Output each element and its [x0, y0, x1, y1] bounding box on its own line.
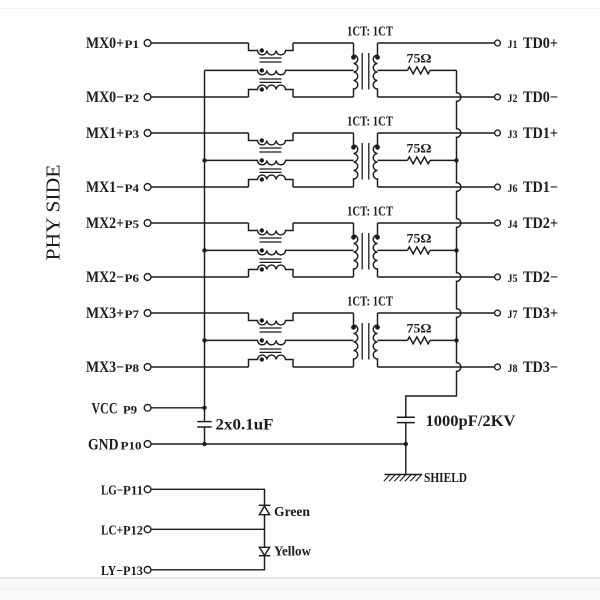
svg-text:MX3+: MX3+ — [86, 305, 124, 322]
svg-text:MX1+: MX1+ — [86, 125, 124, 142]
pin J8 terminal circle — [495, 364, 501, 370]
choke L1 middle winding polarity dot — [260, 68, 264, 72]
wire centre-tap bus to choke L3 middle winding to transformer T3 primary CT — [205, 250, 354, 254]
junction dot on primary CT bus — [202, 338, 206, 342]
svg-text:MX2−: MX2− — [86, 269, 124, 286]
common-mode choke L4 top winding — [249, 313, 294, 325]
resistor R3 75 ohm zigzag — [408, 247, 431, 254]
transformer T1 primary winding — [354, 43, 358, 97]
svg-text:J4: J4 — [508, 219, 518, 231]
transformer T2 core — [361, 143, 363, 180]
wire transformer T2 secondary top to J3 — [378, 132, 495, 134]
chassis ground symbol SHIELD — [385, 474, 422, 476]
svg-text:P7: P7 — [125, 309, 140, 321]
LED D1 Green triangle — [259, 506, 269, 515]
choke L1 core lines (lower pair) — [260, 78, 282, 80]
transformer T2 primary winding — [354, 133, 358, 187]
transformer T1 secondary polarity dot — [375, 55, 380, 60]
wire choke L1 to transformer T1 primary top — [293, 42, 354, 44]
svg-text:P10: P10 — [121, 441, 142, 453]
common-mode choke L4 bottom winding — [249, 355, 294, 367]
faint bottom table border line — [0, 579, 600, 600]
LED D2 Yellow triangle — [259, 547, 269, 555]
pin P12 terminal circle — [144, 526, 151, 533]
wire secondary shield bus (vertical, with hops) — [406, 70, 461, 417]
transformer T4 secondary polarity dot — [375, 325, 380, 330]
svg-text:P1: P1 — [125, 39, 140, 51]
choke L2 top winding polarity dot — [260, 138, 264, 142]
common-mode choke L1 top winding — [249, 43, 294, 55]
wire resistor R3 to shield bus — [430, 249, 457, 251]
transformer T4 primary polarity dot — [351, 325, 356, 330]
wire transformer T2 secondary CT to resistor R2 — [378, 159, 408, 161]
junction dot resistor R2 / shield bus — [454, 158, 458, 162]
svg-text:SHIELD: SHIELD — [424, 470, 467, 485]
wire choke L1 to transformer T1 primary bottom — [293, 96, 354, 98]
svg-text:J8: J8 — [508, 363, 518, 375]
svg-text:TD3−: TD3− — [523, 359, 558, 376]
svg-text:2x0.1uF: 2x0.1uF — [216, 417, 274, 434]
svg-text:P13: P13 — [123, 563, 143, 578]
pin P3 terminal circle — [144, 130, 151, 137]
svg-text:1CT: 1CT: 1CT: 1CT — [347, 295, 393, 310]
wire choke L2 to transformer T2 primary bottom — [293, 186, 354, 188]
pin J3 terminal circle — [495, 130, 501, 136]
common-mode choke L3 bottom winding — [249, 265, 294, 277]
wire P2 to choke L1 bottom — [151, 96, 248, 98]
resistor R4 75 ohm zigzag — [408, 337, 431, 344]
choke L4 core lines (lower pair) — [260, 348, 282, 350]
transformer T4 secondary winding — [373, 313, 377, 367]
wire P8 to choke L4 bottom — [151, 366, 248, 368]
pin P5 terminal circle — [144, 220, 151, 227]
transformer T4 core — [361, 323, 363, 360]
wire centre-tap bus to choke L2 middle winding to transformer T2 primary CT — [205, 160, 354, 164]
wire LC+ P12 common anode — [151, 528, 264, 530]
pin P6 terminal circle — [144, 274, 151, 281]
wire P1 to choke L1 top — [151, 42, 248, 44]
choke L2 bottom winding polarity dot — [260, 177, 264, 181]
transformer T2 secondary winding — [373, 133, 377, 187]
wire choke L3 to transformer T3 primary bottom — [293, 276, 354, 278]
junction dot GND / C1 — [202, 442, 206, 446]
transformer T1 primary polarity dot — [351, 55, 356, 60]
wire transformer T4 secondary bottom to J8 — [378, 366, 495, 368]
wire transformer T4 secondary top to J7 — [378, 312, 495, 314]
wire resistor R2 to shield bus — [430, 159, 457, 161]
svg-text:GND: GND — [88, 437, 119, 454]
pin P13 terminal circle — [144, 566, 151, 573]
LED D2 Yellow cathode bar — [259, 555, 271, 557]
choke L1 bottom winding polarity dot — [260, 87, 264, 91]
junction dot on primary CT bus — [202, 248, 206, 252]
wire LED D2 cathode to LY- P13 — [151, 556, 264, 570]
junction dot on primary CT bus — [202, 158, 206, 162]
choke L2 middle winding polarity dot — [260, 158, 264, 162]
svg-text:LY−: LY− — [101, 563, 123, 578]
common-mode choke L2 top winding — [249, 133, 294, 145]
svg-text:J3: J3 — [508, 129, 518, 141]
svg-text:J5: J5 — [508, 273, 518, 285]
svg-text:TD1−: TD1− — [523, 179, 558, 196]
choke L4 core lines — [260, 327, 282, 329]
wire choke L3 to transformer T3 primary top — [293, 222, 354, 224]
svg-text:75Ω: 75Ω — [407, 141, 432, 156]
common-mode choke L3 top winding — [249, 223, 294, 235]
svg-text:1CT: 1CT: 1CT: 1CT — [347, 205, 393, 220]
wire transformer T1 secondary top to J1 — [378, 42, 495, 44]
wire choke L2 to transformer T2 primary top — [293, 132, 354, 134]
choke L2 core lines (lower pair) — [260, 168, 282, 170]
pin J6 terminal circle — [495, 184, 501, 190]
wire choke L4 to transformer T4 primary top — [293, 312, 354, 314]
wire P7 to choke L4 top — [151, 312, 248, 314]
svg-text:J1: J1 — [508, 39, 518, 51]
wire P5 to choke L3 top — [151, 222, 248, 224]
choke L3 middle winding polarity dot — [260, 248, 264, 252]
pin P4 terminal circle — [144, 184, 151, 191]
pin P7 terminal circle — [144, 310, 151, 317]
pin P1 terminal circle — [144, 40, 151, 47]
transformer T2 secondary polarity dot — [375, 145, 380, 150]
label PHY SIDE (vertical) — [43, 165, 65, 261]
junction dot GND wire / shield branch — [404, 442, 408, 446]
choke L3 core lines — [260, 237, 282, 239]
transformer T1 secondary winding — [373, 43, 377, 97]
svg-text:P12: P12 — [123, 522, 143, 537]
svg-text:MX0−: MX0− — [86, 89, 124, 106]
svg-text:J2: J2 — [508, 93, 518, 105]
svg-text:LC+: LC+ — [101, 522, 123, 537]
wire transformer T3 secondary bottom to J5 — [378, 276, 495, 278]
svg-text:75Ω: 75Ω — [407, 51, 432, 66]
wire resistor R4 to shield bus — [430, 339, 457, 341]
choke L3 bottom winding polarity dot — [260, 267, 264, 271]
wire transformer T1 secondary CT to resistor R1 — [378, 69, 408, 71]
wire P6 to choke L3 bottom — [151, 276, 248, 278]
wire LED D1 anode to LC+ P12 — [264, 515, 266, 530]
transformer T1 core — [361, 53, 363, 90]
svg-text:75Ω: 75Ω — [407, 231, 432, 246]
choke L4 bottom winding polarity dot — [260, 357, 264, 361]
pin P10 terminal circle — [144, 441, 151, 448]
pin J7 terminal circle — [495, 310, 501, 316]
capacitor C2 1000pF/2KV plates — [397, 416, 415, 418]
svg-text:P6: P6 — [125, 273, 140, 285]
svg-text:1CT: 1CT: 1CT: 1CT — [347, 115, 393, 130]
common-mode choke L2 bottom winding — [249, 175, 294, 187]
transformer T4 primary winding — [354, 313, 358, 367]
transformer T3 primary winding — [354, 223, 358, 277]
svg-text:Green: Green — [274, 504, 310, 519]
svg-text:MX3−: MX3− — [86, 359, 124, 376]
choke L3 core lines (lower pair) — [260, 258, 282, 260]
faint top scan line — [0, 8, 600, 10]
svg-text:TD0−: TD0− — [523, 89, 558, 106]
svg-text:1CT: 1CT: 1CT: 1CT — [347, 25, 393, 40]
choke L4 top winding polarity dot — [260, 318, 264, 322]
svg-text:TD2+: TD2+ — [523, 215, 558, 232]
wire resistor R1 to shield bus — [430, 69, 457, 71]
transformer T3 primary polarity dot — [351, 235, 356, 240]
transformer T3 core — [361, 233, 363, 270]
pin P8 terminal circle — [144, 364, 151, 371]
resistor R2 75 ohm zigzag — [408, 157, 431, 164]
wire GND P10 to shield capacitor — [151, 443, 405, 445]
svg-text:TD3+: TD3+ — [523, 305, 558, 322]
svg-text:P5: P5 — [125, 219, 140, 231]
svg-text:P8: P8 — [125, 363, 140, 375]
common-mode choke L1 bottom winding — [249, 85, 294, 97]
wire capacitor C2 to shield ground — [405, 423, 407, 475]
wire transformer T2 secondary bottom to J6 — [378, 186, 495, 188]
LED D1 Green cathode bar — [259, 504, 271, 506]
transformer T3 secondary winding — [373, 223, 377, 277]
pin P9 terminal circle — [144, 404, 151, 411]
svg-text:VCC: VCC — [92, 401, 118, 418]
svg-text:P4: P4 — [125, 183, 140, 195]
svg-text:P9: P9 — [123, 405, 137, 417]
junction dot resistor R3 / shield bus — [454, 248, 458, 252]
svg-text:P2: P2 — [125, 93, 140, 105]
svg-text:75Ω: 75Ω — [407, 321, 432, 336]
svg-text:P3: P3 — [125, 129, 140, 141]
pin J2 terminal circle — [495, 94, 501, 100]
svg-text:MX1−: MX1− — [86, 179, 124, 196]
svg-text:J7: J7 — [508, 309, 518, 321]
wire transformer T1 secondary bottom to J2 — [378, 96, 495, 98]
wire P3 to choke L2 top — [151, 132, 248, 134]
pin P2 terminal circle — [144, 94, 151, 101]
resistor R1 75 ohm zigzag — [408, 67, 431, 74]
transformer T2 primary polarity dot — [351, 145, 356, 150]
svg-text:MX2+: MX2+ — [86, 215, 124, 232]
choke L1 top winding polarity dot — [260, 48, 264, 52]
svg-text:LG−: LG− — [101, 482, 123, 497]
choke L3 top winding polarity dot — [260, 228, 264, 232]
wire centre-tap bus to choke L1 middle winding to transformer T1 primary CT — [205, 70, 354, 74]
wire VCC P9 to CT bus — [151, 407, 204, 409]
svg-text:Yellow: Yellow — [274, 544, 311, 559]
pin J1 terminal circle — [495, 40, 501, 46]
choke L1 core lines — [260, 57, 282, 59]
svg-text:TD1+: TD1+ — [523, 125, 558, 142]
wire P4 to choke L2 bottom — [151, 186, 248, 188]
transformer T3 secondary polarity dot — [375, 235, 380, 240]
wire transformer T4 secondary CT to resistor R4 — [378, 339, 408, 341]
svg-text:J6: J6 — [508, 183, 518, 195]
wire transformer T3 secondary top to J4 — [378, 222, 495, 224]
svg-text:MX0+: MX0+ — [86, 35, 124, 52]
pin J5 terminal circle — [495, 274, 501, 280]
svg-text:P11: P11 — [123, 482, 143, 497]
junction dot VCC / CT bus — [202, 406, 206, 410]
svg-text:TD2−: TD2− — [523, 269, 558, 286]
wire primary centre-tap bus (vertical) — [204, 70, 206, 421]
wire choke L4 to transformer T4 primary bottom — [293, 366, 354, 368]
choke L4 middle winding polarity dot — [260, 338, 264, 342]
wire LC+ to LED D2 anode — [264, 529, 266, 547]
capacitor C1 2x0.1uF plates — [197, 421, 211, 423]
pin J4 terminal circle — [495, 220, 501, 226]
junction dot resistor R4 / shield bus — [454, 338, 458, 342]
svg-text:PHY SIDE: PHY SIDE — [43, 165, 65, 261]
pin P11 terminal circle — [144, 486, 151, 493]
svg-text:TD0+: TD0+ — [523, 35, 558, 52]
wire transformer T3 secondary CT to resistor R3 — [378, 249, 408, 251]
wire LG- P11 to LED D1 cathode — [151, 489, 264, 505]
wire centre-tap bus to choke L4 middle winding to transformer T4 primary CT — [205, 340, 354, 344]
choke L2 core lines — [260, 147, 282, 149]
svg-text:1000pF/2KV: 1000pF/2KV — [426, 413, 517, 430]
